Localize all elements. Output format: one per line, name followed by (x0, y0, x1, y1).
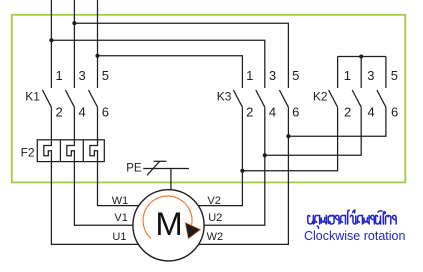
wire F2 to motor terminal W1 (98, 162, 140, 206)
svg-text:5: 5 (292, 68, 299, 83)
wire phase L2 vertical (73, 0, 75, 88)
svg-text:U1: U1 (112, 231, 126, 243)
svg-text:2: 2 (246, 105, 253, 120)
svg-text:5: 5 (391, 68, 398, 83)
green boundary frame (12, 15, 406, 183)
F2 heater element phase 3 (90, 140, 98, 162)
wire phase L1 vertical (50, 0, 52, 88)
wire K1 pin 4 to F2 (73, 107, 75, 140)
node W2 junction (286, 134, 290, 138)
svg-text:V1: V1 (114, 212, 127, 224)
svg-text:4: 4 (368, 105, 375, 120)
node V2 junction (240, 169, 244, 173)
wire K1 pin 2 to F2 (50, 107, 52, 140)
F2 heater element phase 2 (67, 140, 75, 162)
svg-text:3: 3 (79, 68, 86, 83)
svg-text:1: 1 (344, 68, 351, 83)
wire K3 pin 2 to motor terminal V2 (198, 107, 242, 205)
wire K2 pin 1 top (337, 57, 339, 89)
svg-text:PE: PE (126, 163, 142, 175)
contactor K2 pole 5-6 blade (377, 90, 386, 107)
svg-text:6: 6 (102, 105, 109, 120)
svg-text:3: 3 (367, 68, 374, 83)
svg-text:6: 6 (391, 105, 398, 120)
svg-text:6: 6 (292, 105, 299, 120)
svg-text:F2: F2 (21, 145, 35, 159)
contactor K3 pole 1-2 blade (233, 90, 242, 107)
wire branch L2 to K3 pin 5 (74, 23, 288, 88)
wire K2 pin 3 top (360, 57, 362, 89)
wire node U2 to K2 pin 4 (265, 107, 361, 155)
node junction on L3 (95, 54, 99, 58)
contactor K2 pole 1-2 blade (329, 90, 338, 107)
svg-text:2: 2 (56, 105, 63, 120)
PE earth symbol slash (147, 162, 160, 176)
wire F2 to motor terminal V1 (74, 162, 133, 226)
wire phase L3 vertical (97, 0, 99, 88)
wire F2 to motor terminal U1 (51, 162, 138, 245)
contactor K3 pole 3-4 blade (256, 90, 265, 107)
overload relay F2 cell dividers (60, 140, 83, 162)
node junction on L1 (49, 38, 53, 42)
wire branch L3 to K3 pin 1 (98, 56, 243, 88)
motor rotation arrowhead (185, 223, 200, 239)
contactor K1 pole 3-4 blade (65, 90, 74, 107)
wire PE drop to motor frame (170, 169, 172, 191)
wire K2 pin 5 top (385, 57, 387, 89)
node star point junction (359, 54, 363, 58)
svg-text:K1: K1 (25, 89, 40, 103)
svg-text:3: 3 (269, 68, 276, 83)
motor M1 circle (133, 190, 204, 261)
contactor K1 pole 5-6 blade (89, 90, 98, 107)
wire PE main line (143, 168, 189, 170)
svg-text:4: 4 (269, 105, 276, 120)
label Thai caption (hand-drawn strokes) (308, 210, 397, 228)
motor rotation arc (143, 196, 192, 239)
svg-text:2: 2 (344, 105, 351, 120)
wire K1 pin 6 to F2 (97, 107, 99, 140)
contactor K2 pole 3-4 blade (352, 90, 361, 107)
svg-text:W1: W1 (112, 195, 129, 207)
svg-text:5: 5 (102, 68, 109, 83)
wire node V2 to K2 pin 2 (242, 107, 337, 171)
svg-text:V2: V2 (207, 195, 220, 207)
svg-text:U2: U2 (208, 212, 222, 224)
wire K2 star bridge bus (338, 56, 386, 58)
wire branch L1 to K3 pin 3 (51, 40, 264, 88)
svg-text:K2: K2 (313, 89, 328, 103)
svg-text:M: M (155, 205, 182, 242)
node U2 junction (263, 153, 267, 157)
PE earth symbol upper bar (154, 160, 167, 162)
svg-text:Clockwise rotation: Clockwise rotation (304, 229, 405, 243)
wire node W2 to K2 pin 6 (288, 107, 386, 136)
contactor K3 pole 5-6 blade (279, 90, 288, 107)
svg-text:K3: K3 (217, 89, 232, 103)
wire K3 pin 6 to motor terminal W2 (199, 107, 289, 244)
F2 heater element phase 1 (44, 140, 52, 162)
svg-text:1: 1 (246, 68, 253, 83)
overload relay F2 box (37, 140, 104, 162)
svg-text:4: 4 (79, 105, 86, 120)
svg-text:W2: W2 (207, 231, 224, 243)
node junction on L2 (72, 21, 76, 25)
contactor K1 pole 1-2 blade (42, 90, 51, 107)
svg-text:1: 1 (56, 68, 63, 83)
wire K3 pin 4 to motor terminal U2 (204, 107, 265, 225)
